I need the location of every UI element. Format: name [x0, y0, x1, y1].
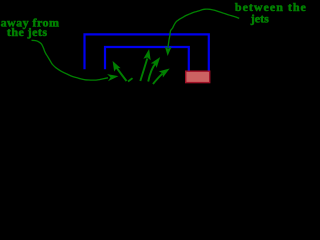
- jet arrow E (right-tilted jet): [153, 69, 168, 84]
- svg-text:jets: jets: [250, 11, 269, 25]
- forward plug (red box): [186, 71, 210, 82]
- left annotation curve from "away from the jets": [32, 40, 117, 80]
- short stroke near vertex: [128, 78, 133, 81]
- jet arrow C (vertical jet): [140, 51, 150, 81]
- inner calorimeter outline (blue): [105, 47, 189, 71]
- svg-text:between the: between the: [235, 0, 307, 14]
- outer calorimeter outline (blue): [85, 34, 209, 70]
- right annotation curve from "between the jets": [166, 9, 240, 54]
- svg-text:the jets: the jets: [7, 25, 48, 39]
- jet arrow D (tilted jet): [148, 58, 159, 81]
- jet arrow L1 (upper-left jet): [113, 62, 126, 81]
